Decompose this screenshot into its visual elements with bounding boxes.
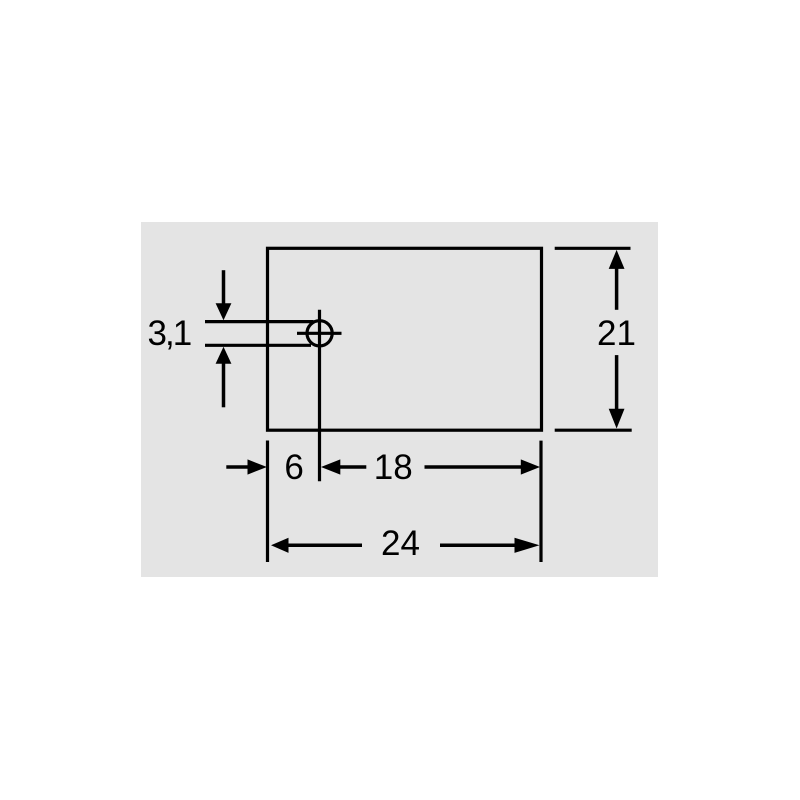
- svg-text:6: 6: [284, 448, 303, 487]
- dim 18 right arrowhead pointing right: [521, 459, 540, 474]
- svg-text:21: 21: [597, 314, 636, 353]
- svg-text:24: 24: [381, 524, 420, 563]
- dim 3,1 upper arrowhead pointing down: [216, 303, 232, 320]
- dim 21 bottom extension line: [555, 429, 632, 432]
- dim 3,1 lower arrow shaft: [222, 362, 226, 407]
- left extension line below part: [266, 441, 269, 563]
- dim 24 left arrowhead pointing left: [271, 538, 289, 553]
- dim 3,1 bottom tangent line: [205, 344, 311, 347]
- svg-text:3,1: 3,1: [148, 314, 191, 353]
- dim 24 right shaft: [440, 544, 516, 548]
- dim 3,1 lower arrowhead pointing up: [216, 347, 232, 364]
- dim 6 outside arrowhead pointing right: [248, 459, 267, 474]
- dim 3,1 upper arrow shaft: [222, 270, 226, 305]
- dim 21 upper shaft: [615, 268, 619, 310]
- dim 18 right shaft: [425, 465, 523, 469]
- dim 18 left shaft: [339, 465, 367, 469]
- hole vertical centerline: [318, 310, 321, 482]
- right extension line below part: [539, 441, 542, 562]
- dim 21 lower arrowhead pointing down: [609, 409, 625, 429]
- gray drawing panel: [141, 222, 658, 577]
- dim 24 right arrowhead pointing right: [515, 538, 540, 553]
- dim 3,1 top tangent line: [205, 320, 314, 323]
- dim 21 upper arrowhead pointing up: [609, 250, 625, 269]
- dim 18 left arrowhead pointing left: [321, 459, 340, 474]
- dim 21 lower shaft: [615, 355, 619, 410]
- hole horizontal centerline: [297, 332, 342, 335]
- part outline rectangle 24x21: [268, 248, 542, 430]
- mounting hole circle: [307, 321, 332, 346]
- svg-text:18: 18: [374, 448, 413, 487]
- dim 6 outside arrow shaft: [226, 465, 250, 469]
- dim 24 left shaft: [287, 544, 362, 548]
- dim 21 top extension line: [555, 247, 631, 250]
